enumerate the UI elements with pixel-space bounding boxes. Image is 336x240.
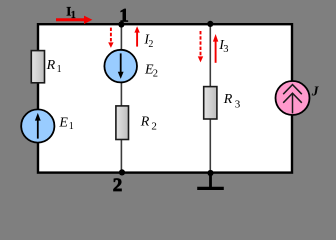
svg-text:2: 2 [153, 68, 158, 79]
resistor R3 [204, 87, 241, 119]
svg-text:1: 1 [71, 10, 76, 21]
svg-text:1: 1 [119, 6, 129, 27]
svg-text:1: 1 [69, 121, 74, 132]
svg-text:J: J [311, 83, 320, 98]
wire outer loop (circuit rectangle) [38, 24, 292, 172]
svg-text:R: R [223, 92, 233, 107]
svg-text:E: E [58, 115, 68, 130]
current arrow I2 [134, 26, 153, 50]
ground [197, 173, 224, 188]
svg-text:R: R [46, 58, 56, 73]
node top of right branch [207, 21, 213, 27]
current source J [276, 81, 320, 115]
wire middle branch (node 1 to node 2) [120, 24, 122, 173]
dashed arrow at I2 (actual direction) [108, 28, 113, 48]
voltage source E2 [104, 50, 158, 83]
svg-text:2: 2 [148, 39, 153, 50]
wire right branch (top to ground) [209, 24, 211, 173]
ground junction node [207, 170, 213, 176]
resistor R1 [31, 51, 61, 83]
svg-text:3: 3 [235, 98, 241, 110]
current arrow I3 [213, 34, 229, 63]
svg-text:3: 3 [223, 44, 228, 55]
svg-text:1: 1 [57, 64, 62, 75]
svg-text:R: R [140, 114, 150, 129]
resistor R2 [116, 106, 157, 140]
svg-text:2: 2 [113, 175, 123, 195]
dashed arrow at I3 (actual direction) [198, 31, 203, 62]
node 2 [113, 169, 125, 196]
current arrow I1 [56, 4, 92, 24]
voltage source E1 [21, 109, 74, 142]
svg-text:2: 2 [151, 121, 157, 133]
node 1 [118, 6, 128, 28]
